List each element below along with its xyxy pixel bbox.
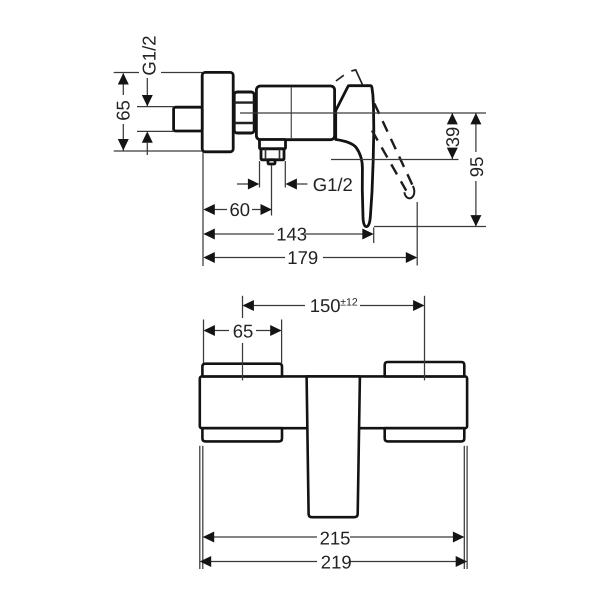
outlet G1/2 extension right (284, 161, 286, 188)
svg-text:G1/2: G1/2 (139, 35, 160, 75)
extension line plate top (left) (114, 72, 139, 74)
dimension 65 arrow down (118, 139, 129, 151)
handle tip extension (right) (374, 226, 486, 228)
outlet centerline down (271, 165, 273, 216)
extension lines bottom left (199, 446, 201, 569)
dimension 95 arrow up (470, 113, 481, 124)
svg-text:39: 39 (442, 127, 463, 148)
dimension 95 arrow down (470, 215, 481, 226)
shower outlet upper block (260, 140, 286, 149)
dimension 60 (205, 209, 228, 211)
outlet nub (268, 160, 275, 164)
handle tip extension down (373, 228, 375, 244)
outlet G1/2 extension left (259, 161, 261, 188)
dimension 179 (205, 257, 286, 259)
outlet hex flat left (265, 149, 267, 159)
body midline extension (240, 112, 486, 114)
svg-text:65: 65 (233, 320, 254, 341)
dimension 95 line (475, 113, 477, 152)
svg-text:95: 95 (466, 157, 487, 178)
svg-text:179: 179 (287, 247, 318, 268)
dimension G1/2 outlet right arrow (286, 179, 297, 190)
dimension G1/2 outlet left arrow (237, 183, 249, 185)
left escutcheon bottom (202, 428, 282, 441)
lever handle (solid, down position) (336, 86, 374, 227)
svg-text:219: 219 (321, 552, 352, 573)
svg-text:143: 143 (276, 224, 307, 245)
dimension 65 vertical line (122, 74, 124, 96)
supply nipple (square flange left of plate) (174, 107, 203, 131)
svg-text:±12: ±12 (340, 297, 358, 309)
union nut between plate and body (234, 92, 254, 133)
handle up-position thin line peak (351, 70, 362, 85)
plate left edge extension down (202, 152, 204, 266)
dimension 143 (205, 233, 275, 235)
handle up-position thin line left (336, 75, 344, 81)
wall plate (escutcheon, side view) (202, 72, 233, 151)
svg-text:60: 60 (230, 199, 251, 220)
right escutcheon top (385, 362, 465, 376)
dimension G1/2 tail below (146, 143, 148, 155)
shower outlet hex (261, 149, 284, 160)
body internal vertical line (290, 88, 292, 139)
dimension 65 extensions (bottom view) (203, 320, 205, 364)
dimension 150 extension right (424, 296, 426, 381)
outlet hex flat right (279, 149, 281, 159)
dimension 65 arrow up (118, 73, 129, 85)
dimension 215 (204, 536, 317, 538)
extension line plate bottom (left) (114, 150, 202, 152)
dimension 150 extension left (242, 296, 244, 318)
dimension G1/2 arrow up (142, 131, 153, 142)
dimension 39 arrow down (447, 148, 458, 159)
right escutcheon bottom (385, 428, 465, 441)
svg-text:65: 65 (112, 100, 133, 121)
valve body (side view) (256, 86, 334, 140)
dashed handle tip extension down (416, 202, 418, 266)
nut band line upper (234, 101, 254, 103)
extension line nipple bottom (137, 130, 174, 132)
extension line nipple top (137, 106, 174, 108)
svg-text:215: 215 (320, 527, 351, 548)
outlet bottom extension (right) (331, 159, 459, 161)
dimension 150 line (244, 305, 306, 307)
dimension G1/2 leader line down (146, 78, 148, 106)
dimension 39 arrow up (447, 113, 458, 124)
dimension 39 line (451, 113, 453, 120)
svg-text:G1/2: G1/2 (313, 174, 353, 195)
nut band line lower (234, 122, 254, 124)
central lever block (307, 376, 360, 517)
dimension G1/2 arrow down (142, 95, 153, 106)
handle swung position (dashed outline) (374, 104, 413, 187)
dimension 65 line (bottom view) (205, 330, 230, 332)
extension lines bottom right (463, 446, 465, 569)
left escutcheon top (202, 364, 282, 377)
svg-text:150: 150 (310, 295, 341, 316)
bottom view: body bar (200, 376, 467, 428)
dimension 219 (201, 561, 317, 563)
